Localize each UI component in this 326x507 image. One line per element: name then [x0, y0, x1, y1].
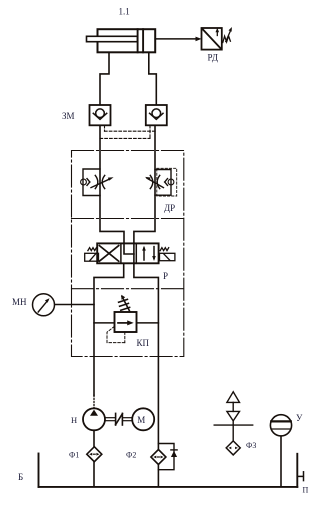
svg-text:Р: Р: [163, 271, 168, 281]
wire pump suction to tank: [93, 430, 95, 486]
wire F2 to tank: [157, 465, 159, 487]
svg-text:У: У: [296, 413, 303, 423]
drain plug P: [297, 472, 303, 481]
relief valve KP pilot line (dashed): [107, 326, 125, 342]
svg-text:М: М: [137, 415, 145, 425]
pilot line crossover (dashed): [100, 125, 156, 138]
pressure switch RD: [202, 28, 222, 50]
wire cylinder to RD: [155, 38, 198, 40]
svg-text:ЗМ: ЗМ: [62, 111, 75, 121]
hydraulic lock ZM2: [146, 105, 167, 125]
hydraulic lock ZM1: [90, 105, 111, 125]
wire riser A (ZM1 to valve middle path): [100, 125, 134, 254]
valve middle square path: [124, 243, 134, 263]
filter F2 bypass with check valve: [158, 444, 177, 470]
svg-text:Н: Н: [71, 415, 77, 425]
wire P-port (valve bottom left to pump): [94, 264, 124, 409]
wire riser B (ZM2 through valve to filter F2): [134, 125, 159, 449]
svg-text:ДР: ДР: [164, 203, 175, 213]
svg-text:Ф3: Ф3: [246, 441, 256, 450]
wire cylinder port A down to ZM1: [100, 52, 109, 105]
directional valve R body: [97, 243, 158, 263]
cylinder rod: [87, 36, 138, 41]
svg-text:1.1: 1.1: [119, 7, 130, 17]
assembly boundary (dash-dot box): [72, 151, 184, 357]
valve right solenoid and spring: [160, 248, 175, 261]
level indicator U: [270, 415, 291, 487]
filter F3 diamond: [226, 441, 240, 455]
relief valve KP: [94, 322, 158, 324]
throttle DR2 (right, with check valve, dashed boundary): [157, 168, 177, 196]
shaft coupling: [105, 418, 132, 421]
svg-text:Ф2: Ф2: [126, 450, 136, 459]
svg-text:КП: КП: [137, 338, 150, 348]
valve left square crossed arrows: [99, 246, 118, 262]
valve right square arrows: [144, 247, 154, 260]
svg-text:МН: МН: [12, 297, 27, 307]
svg-text:Ф1: Ф1: [69, 450, 79, 459]
svg-text:РД: РД: [208, 53, 218, 63]
cylinder body: [98, 29, 156, 52]
cylinder piston: [138, 29, 144, 52]
valve left solenoid and spring: [85, 248, 99, 262]
throttle DR1 (left, with check valve): [81, 169, 111, 196]
wire cylinder port B down to ZM2: [149, 52, 157, 105]
relief valve KP spring arrow: [119, 297, 130, 312]
svg-text:Б: Б: [18, 472, 23, 482]
breather stack F3: [214, 392, 253, 441]
svg-text:П: П: [303, 486, 309, 495]
motor M: [132, 408, 154, 430]
